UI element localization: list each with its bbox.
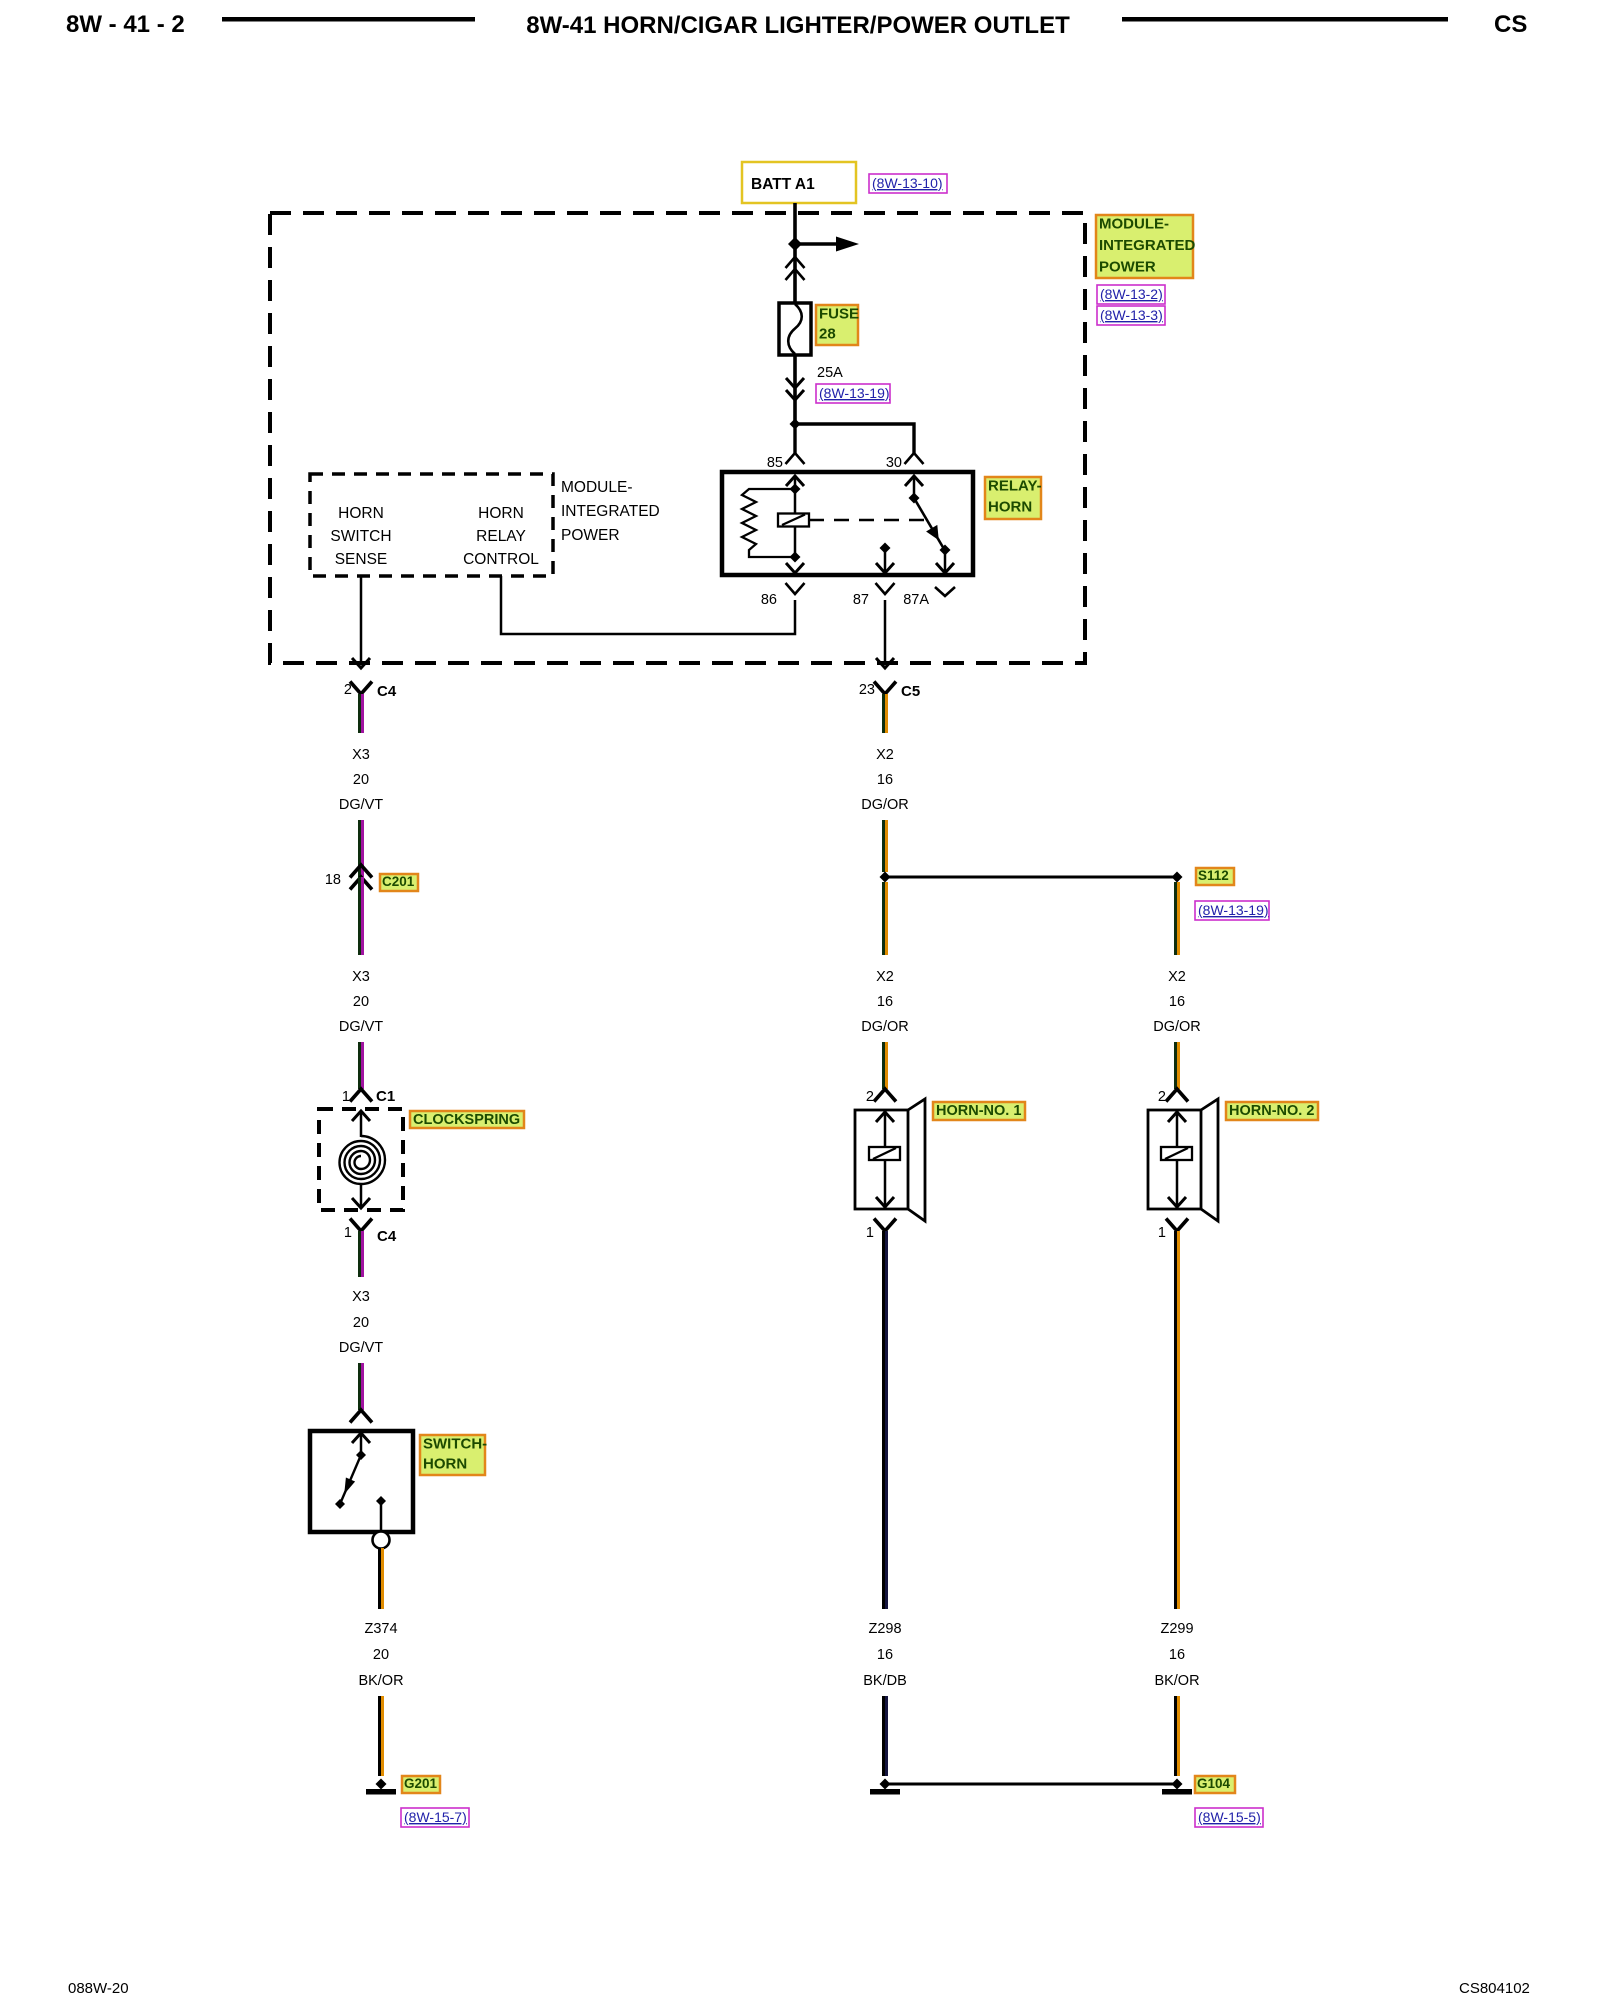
svg-text:C4: C4 — [377, 683, 397, 700]
svg-text:2: 2 — [1158, 1089, 1166, 1105]
svg-text:CS804102: CS804102 — [1459, 1980, 1530, 1997]
relay coil — [778, 514, 809, 527]
svg-text:28: 28 — [819, 326, 836, 343]
wire DG/OR below splice — [882, 882, 885, 955]
svg-text:DG/OR: DG/OR — [1153, 1019, 1201, 1035]
wire branch to relay pin 30 — [795, 424, 914, 453]
svg-text:RELAY-: RELAY- — [988, 478, 1042, 495]
relay-horn box — [722, 472, 973, 575]
svg-text:Z298: Z298 — [868, 1621, 901, 1637]
clockspring spiral — [340, 1136, 386, 1184]
clockspring dashed box — [319, 1109, 403, 1210]
connector at relay pin 30 — [905, 453, 924, 464]
svg-text:(8W-13-3): (8W-13-3) — [1100, 307, 1163, 323]
wire DG/VT to horn switch — [358, 1363, 361, 1410]
svg-text:X2: X2 — [876, 969, 894, 985]
svg-text:16: 16 — [877, 1647, 893, 1663]
wire Z299 BK/OR — [1174, 1231, 1177, 1609]
svg-text:RELAY: RELAY — [476, 528, 526, 545]
svg-text:HORN: HORN — [423, 1456, 467, 1473]
connector at horn switch — [350, 1410, 372, 1423]
svg-text:DG/OR: DG/OR — [861, 797, 909, 813]
wire Z374 BK/OR — [378, 1548, 381, 1609]
relay pin 87A connector — [935, 587, 955, 596]
svg-text:X3: X3 — [352, 747, 370, 763]
junction node at battery feed — [788, 237, 802, 251]
connector C4 pin 1 — [350, 1219, 372, 1232]
svg-text:HORN: HORN — [988, 499, 1032, 516]
svg-text:87A: 87A — [903, 592, 929, 608]
arrow exit through dashed border (switch sense) — [352, 658, 370, 668]
relay pin 86 connector — [786, 583, 805, 594]
svg-text:16: 16 — [877, 994, 893, 1010]
svg-text:85: 85 — [767, 455, 783, 471]
svg-text:C4: C4 — [377, 1228, 397, 1245]
svg-text:(8W-15-5): (8W-15-5) — [1198, 1809, 1261, 1825]
splice label S112 — [1196, 868, 1234, 885]
wire DG/VT to C201 — [358, 820, 361, 877]
svg-text:G201: G201 — [404, 1776, 438, 1791]
switch-horn label — [420, 1435, 485, 1475]
switch fixed contact — [376, 1496, 386, 1506]
wire Z298 to ground — [882, 1696, 885, 1776]
svg-text:HORN-NO. 2: HORN-NO. 2 — [1229, 1103, 1314, 1119]
svg-text:HORN: HORN — [478, 505, 524, 522]
switch-horn box — [310, 1431, 413, 1532]
svg-text:S112: S112 — [1198, 868, 1229, 883]
svg-text:Z299: Z299 — [1160, 1621, 1193, 1637]
svg-text:C201: C201 — [382, 874, 415, 889]
svg-text:2: 2 — [344, 682, 352, 698]
svg-text:X3: X3 — [352, 1289, 370, 1305]
relay pin 30 entry arrow — [905, 476, 923, 486]
svg-text:18: 18 — [325, 872, 341, 888]
wire DG/OR to splice S112 — [882, 820, 885, 872]
svg-text:X3: X3 — [352, 969, 370, 985]
relay switch blade — [914, 498, 944, 549]
svg-text:G104: G104 — [1197, 1776, 1231, 1791]
svg-text:INTEGRATED: INTEGRATED — [1099, 237, 1196, 254]
switch output terminal circle — [373, 1532, 390, 1549]
svg-text:BATT A1: BATT A1 — [751, 176, 815, 193]
svg-text:16: 16 — [1169, 994, 1185, 1010]
connector horn 2 pin 2 — [1166, 1089, 1188, 1102]
svg-text:SENSE: SENSE — [335, 551, 388, 568]
svg-text:SWITCH: SWITCH — [330, 528, 391, 545]
connector C5 pin 23 — [874, 682, 896, 695]
svg-text:BK/OR: BK/OR — [1154, 1673, 1199, 1689]
link 8W-13-19 (fuse) — [816, 384, 890, 403]
splice S112 node left — [880, 872, 891, 883]
svg-text:(8W-13-19): (8W-13-19) — [1198, 902, 1269, 918]
wire DG/OR stub below C5 — [882, 694, 885, 733]
svg-text:20: 20 — [373, 1647, 389, 1663]
svg-text:1: 1 — [1158, 1225, 1166, 1241]
off-page double chevron down — [786, 378, 804, 388]
horn no.1 label — [933, 1102, 1025, 1120]
switch blade — [356, 1450, 366, 1460]
svg-text:DG/VT: DG/VT — [339, 797, 383, 813]
ground label G201 — [402, 1776, 440, 1793]
wire Z374 to ground — [378, 1696, 381, 1776]
svg-text:SWITCH-: SWITCH- — [423, 1436, 487, 1453]
horn no.2 label — [1226, 1102, 1318, 1120]
arrow exit through dashed border (pin 87) — [876, 658, 894, 668]
svg-text:20: 20 — [353, 994, 369, 1010]
svg-text:20: 20 — [353, 1315, 369, 1331]
svg-text:1: 1 — [866, 1225, 874, 1241]
svg-text:16: 16 — [1169, 1647, 1185, 1663]
svg-text:MODULE-: MODULE- — [1099, 216, 1169, 233]
svg-text:CLOCKSPRING: CLOCKSPRING — [413, 1112, 520, 1128]
wire horn relay control to relay pin 86 — [501, 576, 795, 634]
relay pin 87 contact — [880, 543, 891, 554]
header rule left — [222, 17, 475, 22]
fuse 28 symbol — [779, 303, 811, 355]
clockspring entry arrow — [352, 1111, 370, 1121]
svg-text:DG/OR: DG/OR — [861, 1019, 909, 1035]
horn switch sense / horn relay control dashed box — [310, 474, 553, 576]
wire fuse to junction — [793, 355, 797, 424]
svg-text:DG/VT: DG/VT — [339, 1019, 383, 1035]
horn no.2 symbol — [1148, 1110, 1201, 1209]
clockspring label — [410, 1111, 524, 1128]
svg-text:87: 87 — [853, 592, 869, 608]
svg-text:16: 16 — [877, 772, 893, 788]
relay pin 87 connector — [876, 583, 895, 594]
connector horn 1 pin 2 — [874, 1089, 896, 1102]
wire DG/VT below C201 — [358, 877, 361, 955]
svg-text:FUSE: FUSE — [819, 306, 859, 323]
link 8W-13-3 — [1097, 306, 1165, 325]
relay pin 87A exit arrow — [944, 550, 947, 573]
relay label RELAY-HORN — [985, 477, 1041, 519]
connector at relay pin 85 — [786, 453, 805, 464]
relay coil junction bottom — [790, 552, 801, 563]
svg-text:088W-20: 088W-20 — [68, 1980, 129, 1997]
svg-text:X2: X2 — [1168, 969, 1186, 985]
wire relay pin 87 down — [884, 600, 887, 662]
ground crossbar to G104 — [885, 1783, 1177, 1786]
svg-text:(8W-13-2): (8W-13-2) — [1100, 286, 1163, 302]
svg-text:HORN-NO. 1: HORN-NO. 1 — [936, 1103, 1021, 1119]
splice S112 node right — [1172, 872, 1183, 883]
wire Z299 to ground — [1174, 1696, 1177, 1776]
branch arrow to other circuits — [795, 242, 838, 245]
svg-text:23: 23 — [859, 682, 875, 698]
svg-text:8W - 41 - 2: 8W - 41 - 2 — [66, 11, 185, 38]
svg-text:INTEGRATED: INTEGRATED — [561, 503, 660, 520]
svg-text:POWER: POWER — [1099, 259, 1156, 276]
svg-text:(8W-13-19): (8W-13-19) — [819, 385, 890, 401]
connector C1 pin 1 — [350, 1089, 372, 1102]
wire DG/OR to horn 2 — [1174, 1042, 1177, 1089]
relay actuator dashed link — [809, 519, 924, 521]
off-page double chevron up — [786, 257, 805, 268]
connector C4 pin 2 (top) — [350, 682, 372, 695]
connector C201 — [350, 865, 372, 878]
svg-text:1: 1 — [342, 1089, 350, 1105]
wire DG/OR below splice right — [1174, 882, 1177, 955]
svg-text:2: 2 — [866, 1089, 874, 1105]
relay resistor — [742, 489, 795, 557]
wire Z298 BK/DB — [882, 1231, 885, 1609]
svg-text:1: 1 — [344, 1225, 352, 1241]
ground G201 — [376, 1779, 387, 1790]
junction node above relay — [790, 419, 801, 430]
relay pin 85 entry arrow — [786, 476, 804, 486]
svg-text:30: 30 — [886, 455, 902, 471]
svg-text:POWER: POWER — [561, 527, 620, 544]
header rule right — [1122, 17, 1448, 22]
wire horn switch sense down — [360, 576, 363, 662]
svg-text:(8W-15-7): (8W-15-7) — [404, 1809, 467, 1825]
svg-text:BK/DB: BK/DB — [863, 1673, 907, 1689]
link 8W-13-19 (S112) — [1195, 901, 1269, 920]
connector box BATT A1 — [742, 162, 856, 203]
splice S112 crossbar — [885, 876, 1177, 879]
svg-text:86: 86 — [761, 592, 777, 608]
svg-text:DG/VT: DG/VT — [339, 1340, 383, 1356]
ground label G104 — [1195, 1776, 1235, 1793]
wire DG/VT below clockspring — [358, 1231, 361, 1277]
svg-text:C5: C5 — [901, 683, 920, 700]
svg-text:X2: X2 — [876, 747, 894, 763]
module-integrated power dashed outline — [270, 213, 1085, 663]
svg-text:C1: C1 — [376, 1088, 395, 1105]
link 8W-15-5 — [1195, 1808, 1263, 1827]
svg-text:8W-41 HORN/CIGAR LIGHTER/POWER: 8W-41 HORN/CIGAR LIGHTER/POWER OUTLET — [526, 12, 1070, 39]
switch entry arrow — [352, 1433, 370, 1443]
relay coil junction top — [790, 484, 801, 495]
fuse label FUSE 28 — [816, 305, 858, 345]
svg-text:MODULE-: MODULE- — [561, 479, 632, 496]
connector horn 1 pin 1 — [874, 1219, 896, 1232]
svg-text:HORN: HORN — [338, 505, 384, 522]
svg-text:BK/OR: BK/OR — [358, 1673, 403, 1689]
connector horn 2 pin 1 — [1166, 1219, 1188, 1232]
clockspring exit arrow — [360, 1184, 363, 1208]
svg-text:20: 20 — [353, 772, 369, 788]
ground G104 left node — [880, 1779, 891, 1790]
ground G104 — [1172, 1779, 1183, 1790]
link 8W-15-7 — [401, 1808, 469, 1827]
svg-text:(8W-13-10): (8W-13-10) — [872, 175, 943, 191]
module-integrated power label — [1096, 215, 1193, 278]
link 8W-13-2 — [1097, 285, 1165, 304]
relay pin 86 exit arrow — [786, 563, 804, 573]
wire DG/VT stub below C4 — [358, 694, 361, 733]
horn no.1 symbol — [855, 1110, 908, 1209]
wire DG/OR to horn 1 — [882, 1042, 885, 1089]
link 8W-13-10 — [869, 174, 947, 193]
svg-text:Z374: Z374 — [364, 1621, 397, 1637]
wire battery feed down — [793, 203, 797, 303]
svg-text:CONTROL: CONTROL — [463, 551, 539, 568]
wire DG/VT to C1 — [358, 1042, 361, 1089]
svg-text:CS: CS — [1494, 11, 1527, 38]
svg-text:25A: 25A — [817, 365, 843, 381]
